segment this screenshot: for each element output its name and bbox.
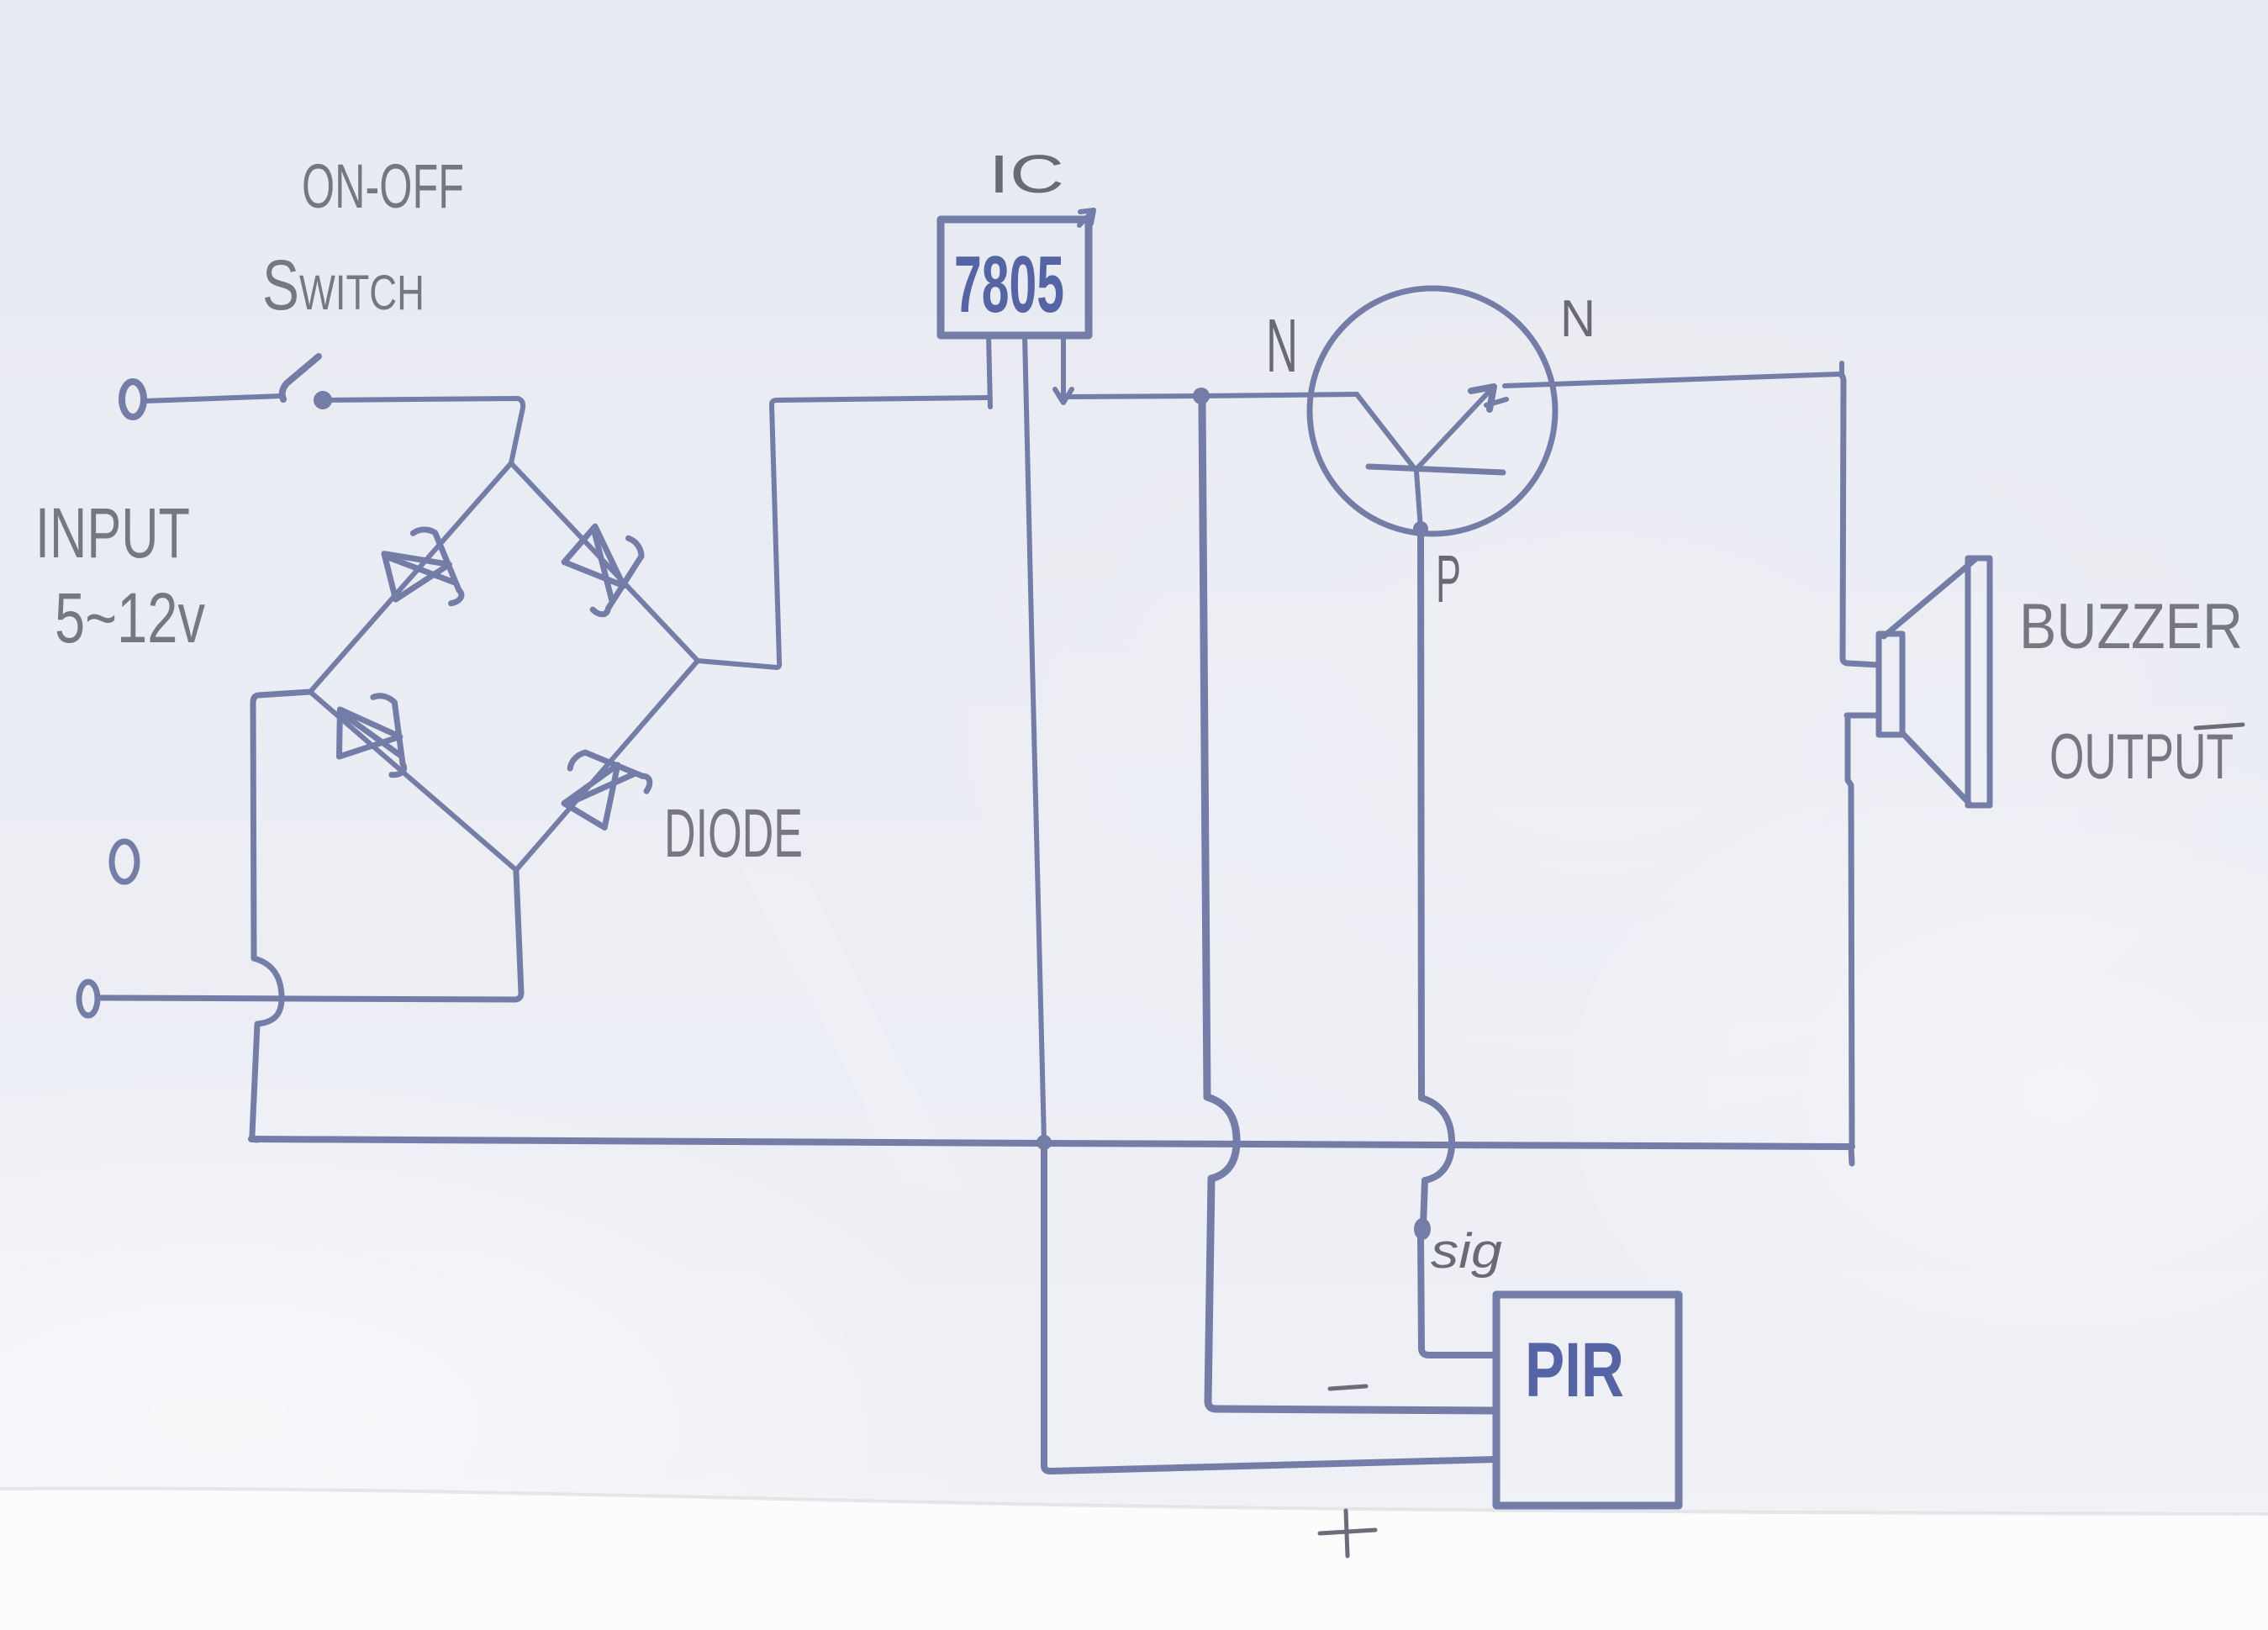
svg-text:5~12v: 5~12v [55, 578, 205, 657]
svg-text:IC: IC [989, 144, 1064, 204]
svg-text:N: N [1560, 290, 1596, 348]
svg-text:sig: sig [1431, 1224, 1502, 1279]
svg-text:N: N [1266, 304, 1298, 388]
svg-text:P: P [1436, 541, 1461, 616]
svg-text:INPUT: INPUT [35, 493, 190, 572]
svg-text:7805: 7805 [954, 240, 1064, 330]
svg-text:OUTPUT: OUTPUT [2049, 721, 2234, 793]
svg-text:ON-OFF: ON-OFF [302, 151, 464, 221]
svg-text:DIODE: DIODE [664, 795, 803, 872]
svg-text:PIR: PIR [1525, 1327, 1624, 1413]
svg-text:BUZZER: BUZZER [2019, 591, 2243, 662]
svg-text:SWITCH: SWITCH [262, 245, 425, 324]
